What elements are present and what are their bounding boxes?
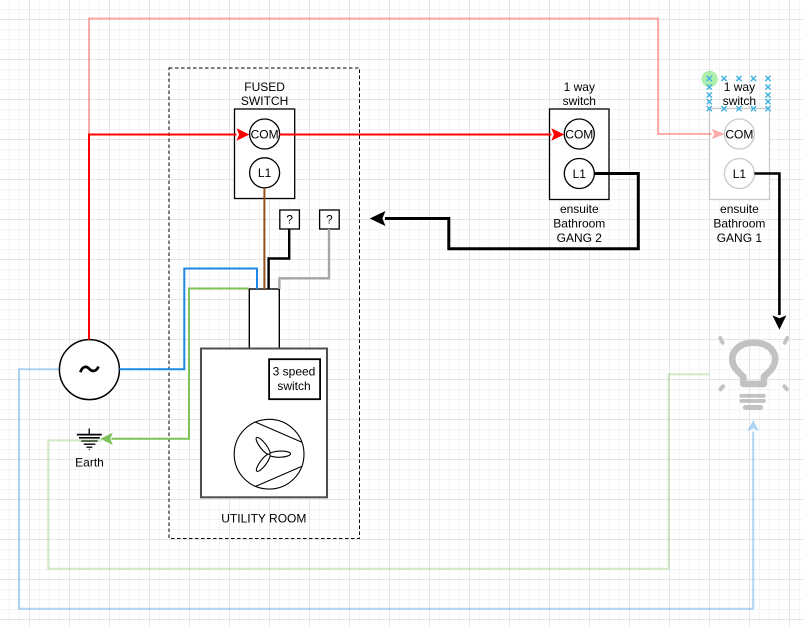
svg-text:?: ? — [326, 213, 333, 227]
svg-text:1 way: 1 way — [564, 80, 595, 94]
wire: grey from terminal ?2 to connector — [279, 229, 329, 289]
svg-text:COM: COM — [725, 127, 753, 141]
svg-text:Bathroom: Bathroom — [553, 217, 605, 231]
dashed boundary: utility room area — [169, 68, 360, 539]
wire: brown switched live (fused L1 to fan connector) — [263, 188, 265, 289]
wire: black GANG1 L1 to light (arrow down) — [754, 174, 786, 330]
svg-text:L1: L1 — [733, 167, 747, 181]
svg-text:switch: switch — [563, 94, 596, 108]
svg-text:L1: L1 — [573, 167, 587, 181]
svg-text:switch: switch — [277, 379, 310, 393]
fan blades — [254, 436, 290, 473]
wire: faded green proposed earth (earth to light) — [48, 374, 709, 569]
svg-text:GANG 2: GANG 2 — [557, 231, 603, 245]
svg-text:GANG 1: GANG 1 — [717, 231, 763, 245]
svg-text:ensuite: ensuite — [560, 202, 599, 216]
wire: black from terminal ?1 to connector — [269, 229, 290, 289]
wire: red live feed from AC source to fused switch COM — [89, 128, 250, 340]
GANG2 terminal L1 — [564, 159, 594, 189]
GANG2 terminal COM — [564, 119, 594, 149]
1 way switch GANG1 (faded / being placed) — [710, 80, 770, 245]
svg-text:COM: COM — [251, 127, 279, 141]
wire: faded red proposed feed to GANG1 COM — [89, 19, 725, 140]
selection handles around GANG1 label — [701, 71, 770, 111]
svg-text:Earth: Earth — [75, 456, 104, 470]
svg-text:Bathroom: Bathroom — [713, 217, 765, 231]
connector block on fan — [249, 289, 279, 349]
1 way switch GANG2 — [550, 80, 610, 245]
fused switch box — [235, 80, 295, 199]
svg-text:3 speed: 3 speed — [273, 365, 316, 379]
svg-text:?: ? — [286, 213, 293, 227]
3 speed switch box — [269, 359, 320, 399]
AC source — [59, 340, 119, 400]
wire: black GANG2 L1 to utility room (arrow) — [370, 174, 639, 249]
wire: blue neutral (source to fan connector) — [120, 269, 258, 370]
svg-text:ensuite: ensuite — [720, 202, 759, 216]
wire: faded blue proposed neutral (source to light) — [19, 369, 759, 608]
svg-text:FUSED: FUSED — [244, 80, 285, 94]
wire: red link fused COM to GANG2 COM — [280, 128, 565, 141]
fan symbol — [234, 419, 304, 489]
svg-text:COM: COM — [565, 127, 593, 141]
fan unit box — [201, 349, 327, 498]
svg-text:UTILITY ROOM: UTILITY ROOM — [221, 511, 306, 525]
fused switch terminal L1 — [250, 158, 280, 188]
svg-text:L1: L1 — [258, 166, 272, 180]
earth symbol — [77, 429, 102, 450]
svg-text:SWITCH: SWITCH — [241, 94, 288, 108]
fused switch terminal COM — [250, 119, 280, 149]
unknown terminal ?1 — [280, 210, 300, 229]
light bulb icon — [720, 338, 787, 408]
GANG1 terminal L1 — [724, 159, 754, 189]
GANG1 terminal COM — [724, 119, 754, 149]
svg-text:1 way: 1 way — [724, 80, 755, 94]
wire: green earth (fan connector to earth) — [100, 289, 249, 446]
unknown terminal ?2 — [320, 210, 340, 229]
